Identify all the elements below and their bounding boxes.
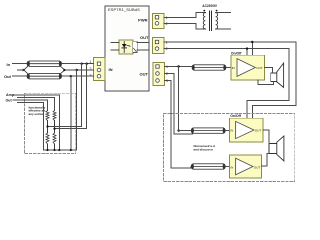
svg-text:AC230/9V: AC230/9V [202,4,218,8]
svg-text:OUT: OUT [256,66,263,70]
svg-text:Out: Out [4,74,12,79]
J1 pin numbers [90,60,92,77]
attenuator note text [29,105,47,116]
speaker SP1 [271,63,284,87]
svg-text:OUT: OUT [255,129,262,133]
shielded cable W3 [192,65,227,70]
wire Out- entry [18,102,44,150]
wire branch down to W4 [179,67,191,131]
junction dot at W4 feed [177,129,179,131]
wire A2 out to SP2 [263,130,269,143]
wire shield mid to J1 pin2 [18,69,24,71]
wire SP1 return [258,80,274,85]
svg-text:any extras: any extras [29,112,44,116]
svg-text:and discussn: and discussn [194,148,213,152]
wire PWR 2 to transformer [164,23,206,29]
optocoupler right wires to IC edge [137,43,149,51]
amplifier A1 [231,55,265,80]
wire drop v4 [86,64,88,129]
connector J3 (PWR) [152,13,164,28]
wire drop v1 [70,76,72,150]
junction dot J5.1 branch [177,65,179,67]
branch to amp A1 power a [251,42,253,55]
junction dots on wrap wires [246,41,254,50]
optocoupler U2 inside IC [119,40,137,54]
J5 pin numbers [166,65,168,83]
dashed box speaker unit [164,114,295,182]
svg-text:ESP7R1_SUBdS: ESP7R1_SUBdS [108,7,140,12]
svg-text:In: In [7,62,11,67]
optocoupler left stub wires [111,43,119,51]
wire PWR 1 to transformer [164,13,206,18]
wire Out+ entry [13,100,48,111]
wire net V- (J4.2 wrap wire) [164,49,289,119]
resistor R1 [46,111,49,134]
svg-text:OUT: OUT [254,165,261,169]
branch to amp A1 power b [246,49,248,56]
shielded cable W4 [191,128,226,133]
wire In to J1 pin1 [13,63,94,65]
svg-text:OUT: OUT [140,35,149,40]
bus junction dots [46,125,72,151]
svg-text:3: 3 [90,73,92,77]
svg-text:IN: IN [230,165,233,169]
svg-text:IN: IN [232,66,235,70]
connector J1 (IN, left side of IC) [93,58,105,81]
wire W5 to amp A3 [226,166,230,168]
svg-text:OUT: OUT [140,72,149,77]
transformer secondary wires [216,13,231,29]
IC U1 main controller box [105,6,149,91]
svg-text:On/Off: On/Off [231,51,242,55]
wire Amp+ entry [14,95,60,150]
amplifier A3 [229,155,261,178]
svg-text:Out: Out [6,98,13,102]
wire W4 to amp A2 [226,130,230,132]
J4 pin numbers [166,41,168,52]
shielded cable W1 (In) [27,61,62,66]
wire J5.2 down to W4 shield [165,74,193,134]
node dots on audio lines [70,63,88,78]
shield Y-split left [23,66,28,73]
svg-text:PWR: PWR [138,18,147,23]
shield Y-merge right [60,66,65,73]
wire Amp- entry [18,98,55,111]
svg-text:IN: IN [230,129,233,133]
resistor R4 [53,133,56,150]
wire J5.1 to cable W3 [165,66,193,68]
shielded cable W2 (Out) [27,74,62,79]
wire net V+ (J4.1 wrap wire) [164,42,296,118]
J3 pin numbers [166,16,168,26]
resistor R3 [46,133,49,150]
wire A1 out to SP1 [265,68,273,73]
wire A3 out to SP2 [261,154,269,166]
speaker unit note text [194,144,215,152]
transformer T1 [202,4,218,31]
shielded cable W5 [191,164,226,169]
wire drop v2 [76,70,78,129]
bus A [48,126,82,128]
dashed box attenuator network [25,93,76,153]
connector J4 (OUT mid) [152,37,164,53]
wire W3 to amp A1 [226,67,231,69]
bus C (bottom) [44,129,77,150]
bus B [55,128,87,130]
svg-text:IN: IN [109,67,113,72]
svg-text:On/Off: On/Off [230,114,241,118]
connector J5 (OUT low) [153,63,165,86]
wire drop v3 [81,64,83,127]
amplifier A2 [229,118,263,142]
speaker SP2 [269,136,284,161]
resistor R2 [53,111,56,134]
wire J5.3 down to W5 [165,81,192,168]
wire Out to J1 pin3 [13,75,94,77]
